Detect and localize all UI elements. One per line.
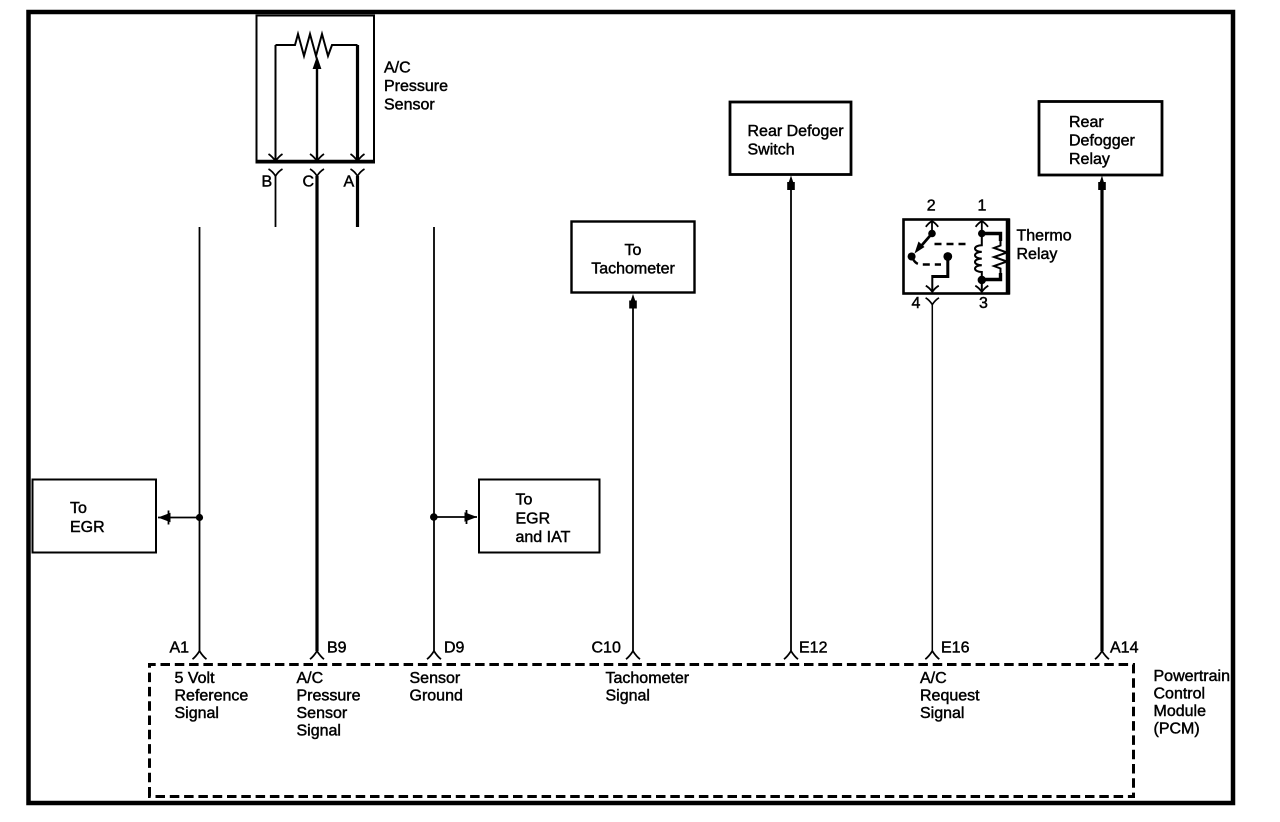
- arrowhead into To Tachometer: [629, 294, 637, 309]
- dashed link lower: [913, 259, 941, 265]
- svg-text:EGR: EGR: [70, 519, 105, 536]
- wire stub pin A: [356, 176, 359, 227]
- node A1 junction dot: [196, 514, 203, 521]
- To EGR box: [33, 480, 157, 553]
- svg-text:A14: A14: [1110, 640, 1139, 657]
- thermo relay box: [904, 219, 1009, 295]
- Rear Defogger Switch box: [730, 102, 851, 175]
- svg-text:and IAT: and IAT: [516, 529, 571, 546]
- potentiometer right leg: [356, 45, 359, 160]
- pin 1 stub and arrow: [976, 221, 988, 233]
- svg-text:Signal: Signal: [297, 723, 341, 740]
- svg-text:C10: C10: [592, 640, 621, 657]
- wire A1: [199, 227, 201, 651]
- dashed actuator link upper: [935, 243, 971, 245]
- arrow at pin 3: [975, 286, 988, 292]
- svg-text:1: 1: [978, 198, 987, 215]
- wire from NC contact to pin 4: [932, 257, 948, 277]
- connector pin C: [310, 169, 324, 176]
- svg-text:To: To: [70, 500, 87, 517]
- svg-text:Module: Module: [1154, 703, 1207, 720]
- wire pin C to B9: [315, 176, 318, 651]
- svg-text:A/C: A/C: [920, 670, 947, 687]
- PCM connector E16: [925, 651, 939, 659]
- To EGR and IAT box: [479, 480, 600, 553]
- wire stub pin B: [275, 176, 277, 227]
- wire A14: [1100, 189, 1103, 651]
- arrow pin C inside box: [310, 154, 324, 161]
- svg-text:EGR: EGR: [516, 511, 551, 528]
- arrow pin A inside box: [351, 154, 365, 161]
- svg-text:Signal: Signal: [606, 688, 650, 705]
- svg-text:E12: E12: [799, 640, 828, 657]
- svg-text:Pressure: Pressure: [297, 688, 361, 705]
- switch arm with arrowhead: [915, 234, 933, 254]
- connector pin A: [351, 169, 365, 176]
- svg-text:Relay: Relay: [1069, 151, 1110, 168]
- pin 2 contact dot: [928, 230, 936, 238]
- resistor parallel with coil: [982, 234, 1007, 280]
- PCM connector A1: [193, 651, 207, 659]
- svg-text:Relay: Relay: [1017, 246, 1058, 263]
- pin 1 dot: [978, 230, 986, 238]
- svg-text:Sensor: Sensor: [297, 705, 348, 722]
- To Tachometer box: [572, 222, 695, 293]
- svg-text:Switch: Switch: [748, 142, 795, 159]
- connector pin B: [269, 169, 283, 176]
- svg-text:A1: A1: [170, 640, 190, 657]
- switch fixed contact dot: [908, 253, 916, 261]
- svg-text:A: A: [344, 174, 355, 191]
- svg-text:Thermo: Thermo: [1017, 228, 1072, 245]
- A/C pressure sensor box: [256, 16, 374, 163]
- svg-text:Sensor: Sensor: [384, 97, 435, 114]
- svg-text:2: 2: [927, 198, 936, 215]
- svg-text:5 Volt: 5 Volt: [175, 670, 216, 687]
- NC contact dot: [943, 252, 952, 261]
- coil bottom dot: [978, 276, 986, 284]
- PCM connector B9: [310, 651, 324, 659]
- node D9 junction dot: [430, 513, 438, 521]
- potentiometer wiper arrow: [313, 56, 322, 160]
- wire D9: [433, 227, 435, 651]
- PCM connector E12: [784, 651, 798, 659]
- arrow at pin 4: [926, 286, 939, 292]
- svg-text:Signal: Signal: [175, 705, 219, 722]
- arrow pin B inside box: [269, 154, 283, 161]
- svg-text:To: To: [625, 242, 642, 259]
- svg-text:4: 4: [912, 295, 921, 312]
- svg-text:Tachometer: Tachometer: [606, 670, 690, 687]
- svg-text:Defogger: Defogger: [1069, 133, 1135, 150]
- svg-text:Rear Defoger: Rear Defoger: [748, 123, 845, 140]
- pin 2 stub and arrow: [926, 221, 938, 233]
- svg-text:Reference: Reference: [175, 688, 249, 705]
- svg-text:B9: B9: [327, 640, 347, 657]
- PCM connector A14: [1095, 651, 1109, 659]
- svg-text:C: C: [303, 174, 315, 191]
- svg-text:E16: E16: [941, 640, 970, 657]
- svg-text:Pressure: Pressure: [384, 78, 448, 95]
- arrowhead into To EGR: [158, 511, 171, 525]
- svg-text:A/C: A/C: [384, 60, 411, 77]
- svg-text:Request: Request: [920, 688, 980, 705]
- svg-text:D9: D9: [444, 640, 465, 657]
- svg-text:Signal: Signal: [920, 705, 964, 722]
- svg-text:To: To: [516, 492, 533, 509]
- wire to EGR and IAT box: [434, 516, 477, 518]
- svg-text:(PCM): (PCM): [1154, 721, 1200, 738]
- svg-text:Ground: Ground: [410, 688, 463, 705]
- coil wire to pin 3: [981, 280, 983, 292]
- wire E12: [790, 189, 792, 651]
- arrowhead into To EGR and IAT: [465, 510, 478, 524]
- svg-text:Powertrain: Powertrain: [1154, 668, 1230, 685]
- svg-text:Tachometer: Tachometer: [591, 261, 675, 278]
- wire to EGR box: [158, 517, 200, 519]
- PCM connector D9: [427, 651, 441, 659]
- potentiometer left leg: [275, 45, 277, 160]
- svg-text:Control: Control: [1154, 686, 1206, 703]
- relay coil: [975, 234, 982, 281]
- svg-text:A/C: A/C: [297, 670, 324, 687]
- wire C10: [632, 307, 634, 651]
- PCM connector C10: [626, 651, 640, 659]
- connector pin 4: [926, 298, 939, 305]
- potentiometer resistor: [276, 34, 358, 56]
- arrowhead into Rear Defogger Relay: [1098, 176, 1106, 191]
- svg-text:Sensor: Sensor: [410, 670, 461, 687]
- wire E16: [931, 305, 933, 651]
- arrowhead into Rear Defogger Switch: [787, 176, 795, 191]
- Rear Defogger Relay box: [1039, 102, 1162, 176]
- svg-text:Rear: Rear: [1069, 114, 1104, 131]
- PCM dashed box: [150, 665, 1134, 797]
- svg-text:B: B: [262, 174, 273, 191]
- svg-text:3: 3: [979, 295, 988, 312]
